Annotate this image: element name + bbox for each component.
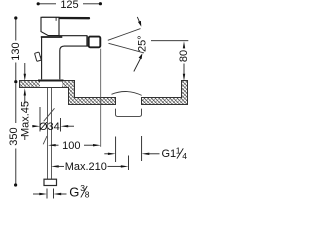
svg-text:25°: 25° [137,35,149,52]
Ø34 leader diagonal 2 [43,136,47,144]
hose end nut [44,179,57,185]
deck right slab with column [142,81,188,105]
dimension G3/8 extension tick left [46,189,48,199]
supply pipe left line [47,88,49,179]
dim 80 top arrow [183,41,185,48]
dim Max.210 right arrow [108,165,129,167]
deck left slab with step (ceramic cross-section, hatched) [20,81,116,105]
dim 100 right arrow [84,144,101,146]
dim 350 bottom dot [14,183,17,186]
base gasket bar (thick) [38,80,64,82]
dimension G1 1/4 right arrow [142,153,160,155]
angle arrow lower [134,53,143,71]
spout tip face [86,36,88,47]
svg-text:100: 100 [62,140,80,152]
svg-text:130: 130 [10,42,22,60]
svg-text:G: G [69,184,79,199]
svg-text:125: 125 [60,0,78,11]
svg-text:350: 350 [8,127,20,145]
spray hole dome arc [112,92,142,96]
Ø34 leader diagonal 1 [44,108,55,121]
dimension 100 left arrow at pipe [48,144,59,146]
faucet lever handle bar [42,17,89,20]
label G1 1/4 [162,145,188,160]
dimension 130 vertical line [15,18,17,81]
svg-text:Max.45: Max.45 [19,101,31,137]
grip joint notch [55,17,57,21]
svg-text:Ø34: Ø34 [39,121,60,133]
dimension G3/8 extension tick right [53,189,55,199]
dimension G1 1/4 left arrow [104,153,115,155]
svg-text:80: 80 [178,50,190,62]
spout top line [59,35,87,37]
pop-up rod knob [35,52,42,61]
extension tick B (hole center) [128,156,130,171]
body right edge + spout underside fillet [60,46,89,79]
dim Ø34 right arrow [61,125,75,127]
extension line spout tip (for 100) [100,49,102,147]
svg-text:4: 4 [182,151,187,161]
dim 125 left dot [37,2,40,5]
dimension Ø34 extension tick left [39,107,41,132]
drain socket U bracket below deck [116,109,142,117]
body left edge [41,37,43,79]
dimension 125: line with end dots [38,3,101,5]
dim 80 bottom arrow [183,64,185,82]
dim Max.45 lower stub [24,136,26,141]
svg-text:Max.210: Max.210 [65,161,107,173]
extension tick C (hole right) [141,136,143,161]
supply pipe right line [51,88,53,179]
svg-text:G1: G1 [162,148,177,160]
angle arrow upper [137,17,141,27]
dimension Max.45 upper arrow [24,63,26,81]
neck ring (thick) [41,36,63,38]
spray cone lower line [109,43,145,53]
dimension Max.210 left arrow at pipe [51,165,64,167]
dim Ø34 left arrow [32,125,40,127]
dim G3/8 left arrow [33,193,47,195]
deck hole (white gap under faucet base) [40,81,62,87]
svg-text:8: 8 [85,190,90,200]
aerator outlet box (bold) [89,37,101,48]
pop-up rod link [40,55,41,57]
spray cone upper line [108,29,141,41]
dim 130 top dot [14,16,17,19]
label G3/8 [69,183,90,199]
dim 125 right dot [99,2,102,5]
handle grip block [41,17,59,35]
dimension 80 top reference line [151,40,188,42]
dimension Max.45 lower arrow [24,88,26,103]
dimension Ø34 extension tick right [60,118,62,132]
dimension 350 vertical line [15,84,17,185]
dim G3/8 right arrow [54,193,67,195]
extension tick A (hole left) [115,137,117,163]
dim 130 bottom dot [14,80,17,83]
